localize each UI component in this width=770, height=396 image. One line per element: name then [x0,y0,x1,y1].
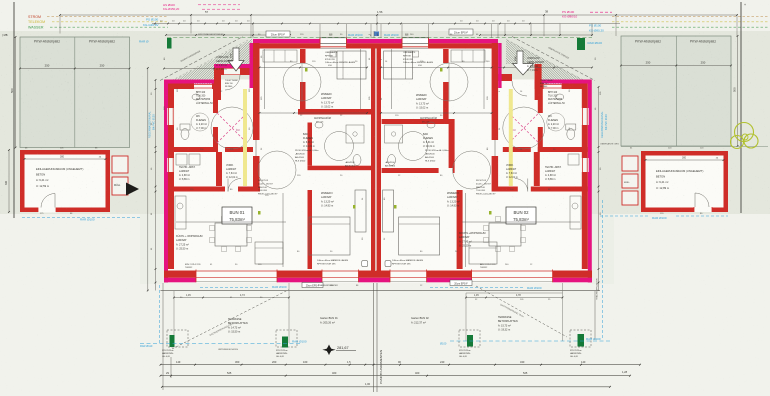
wall: WC left vertical right wing [538,89,543,113]
BUN02 bed zimmer1 [384,51,413,79]
parking left dimension line [20,68,130,70]
WC fixtures left [181,129,189,140]
WC door arc left [191,113,209,131]
vorplatz left dashed boundary [160,37,243,81]
BUN02 label box [506,207,536,224]
side band right of building [592,214,614,284]
mid band slightly darker scanned area [0,31,770,214]
bottom dim row 3 [162,386,610,388]
terrace left dashed diagonal (eaves) [172,290,289,350]
storage right inner dimension [646,159,724,161]
window in right exterior wall TECHN [581,158,589,172]
sink fixtures at party wall bottom [362,261,368,267]
wall: BUN02 zimmer2 right vertical [457,190,463,269]
hall closet row BUN02 [451,50,485,62]
elevation star marker [323,345,335,355]
storage right door opening [694,205,712,213]
drain line below storage right [600,215,648,217]
left entry door swing [225,75,240,90]
drain label below bottom wall right [430,287,524,289]
wall: top exterior insulation (pink) [253,39,498,43]
parking area right (PKW-Abstellplatz) [621,36,731,146]
extension lines above top wall [252,24,254,38]
terrace right dashed diagonal (eaves) [476,286,567,337]
green downpipe terrace right b [578,334,585,347]
shower circle left wing [211,107,253,149]
wall: BUN01 bad left vertical [308,123,313,166]
green downpipe terrace left b [282,337,288,348]
parking right divider [675,36,677,146]
storage left inner dimension [25,158,106,160]
left wing window in top wall [194,84,212,86]
windows in top wall [320,38,347,49]
extension lines from top dim row [190,15,192,34]
BUN02 bad door swing circle [399,132,428,161]
interior dim line living rooms [176,221,286,223]
shower circle right wing [503,107,545,149]
wall: right wing bottom (above kitchen) [531,187,588,192]
wall: left entry upper insulation (pink) [214,64,253,68]
drain line below storage left [22,217,140,219]
window in left exterior wall TECHN [167,158,175,172]
green downpipe terrace right a [467,335,473,347]
left outer vertical dim chain [155,80,157,291]
terrace right dim line [466,297,563,299]
wall: BUN01 zimmer2 left vertical [308,190,313,269]
wall: BUN01 zimmer1 bottom horizontal [298,109,371,115]
left entry door opening [224,68,240,75]
BUN02 kitchen counter [570,196,581,229]
green downpipe terrace left a [170,335,175,347]
interior vertical dim BUN02 [391,49,393,109]
wall: BUN01 zimmer1/hall vertical [300,49,306,63]
wall: left exterior (red) [168,89,174,269]
paper speckle overlay parking left [20,34,130,148]
interior dimension line zimmer1 BUN02 [381,67,492,69]
dim row above building y33.5 [166,34,290,36]
wall: left entry upper (red) [221,68,253,75]
BUN01 zimmer1 door swing circle [283,63,321,101]
washing machine boxes [176,154,187,165]
green dashed drain line above top wall [167,36,592,38]
terrace left drain dashed cyan [140,343,300,345]
BUN02 bed zimmer2 [399,217,440,255]
green marks BUN02 [440,68,443,72]
wall: below WC right wing [538,147,588,152]
eps box bottom right [450,280,472,286]
window in right exterior wall WC [581,108,589,125]
parking right dimension line [621,65,731,67]
storage room left walls (EINLAGERUNGSRAUM) [20,150,110,212]
bin boxes right of building [622,156,638,171]
BUN02 bad fixtures [427,122,435,128]
punktfundamenten vertical lines [373,283,375,392]
BUN02 zimmer2 door swing circle [453,151,491,189]
dimension line through left porch [164,68,214,70]
wall: BUN02 bad bottom horizontal [382,168,455,173]
right outer vertical dim chain [598,87,600,291]
entrance arrow right (EINF) [513,51,534,75]
WC fixtures right [567,129,575,140]
side band left of building [140,214,164,284]
BUN01 label box [222,207,252,224]
entry door arc to kitchen left [228,179,241,192]
wall: center-left vertical (red) [253,43,260,140]
right entry door swing [512,81,527,96]
green downpipe top-right [577,38,585,50]
wall: BUN02 zimmer1 bottom horizontal [382,119,455,124]
wall: right exterior (red) [582,89,588,269]
wall: left exterior insulation (pink) [164,84,168,283]
bottom dim row 2 [161,375,631,377]
shower cross dashed pink right [509,113,539,143]
wall: right wing top (red) [562,84,588,90]
bottom dim row 1 [161,364,641,366]
BUN01 couch [255,242,283,264]
vorplatz right hatched area [409,35,673,95]
parking right vertical dimension [737,36,739,146]
wall: right entry column (red) [535,64,542,100]
BUN02 couch [469,242,497,264]
boundary vertical line right [740,2,742,213]
door opening center-right wall [494,140,496,156]
dim row above building right [480,34,592,36]
terrace right dashed corner boxes [459,330,480,347]
wall: below WC left wing [168,147,218,152]
arrow marker left [126,183,139,196]
BUN01 zimmer2 door swing circle [258,151,296,189]
wall: left wing top stub (red) [212,84,221,90]
wall: TECHN/VORR divider left wing [216,152,222,186]
BUN01 bad door swing circle [325,132,354,161]
wall: WC right vertical left wing [213,89,218,113]
storage left door opening [38,205,56,213]
terrace left dashed corner boxes [167,330,188,347]
terrace right outline [466,293,563,341]
BUN01 bed zimmer2 [309,217,350,255]
terrace left outline [174,291,289,343]
BUN01 wardrobe zimmer2 [355,190,366,232]
parking right bottom line [621,146,768,148]
terrace right drain dashed cyan [450,340,610,342]
door opening center-left wall [255,140,257,156]
entry door arc to kitchen right [515,179,528,192]
left drain dashed vertical [159,285,161,344]
wall: VORR/TECHN divider right wing [534,152,540,186]
eps label box left [266,31,290,37]
wall: left wing top insulation (pink) [164,80,215,84]
wall: right wing top stub (red) [535,84,544,90]
vorplatz right dashed boundary [512,37,595,81]
WC door arc right [547,113,565,131]
building interior fill [164,43,592,283]
right wing window in top wall [544,84,562,86]
BUN01 dining table [215,223,247,246]
top dimension row 1 [60,14,737,16]
wall: top exterior (red) [253,43,498,48]
eps label box right [449,29,473,35]
window in left exterior wall WC [167,108,175,125]
wall: left wing top (red) [168,84,194,90]
storage right door swing [695,193,709,207]
storage left door swing [41,194,55,208]
green downpipe top-left [167,38,172,49]
paper speckle overlay parking right [621,36,731,146]
interior dimension line mid BUN02 [381,112,492,114]
wall: BUN01 bad bottom horizontal [308,166,372,171]
wall: left wing bottom (above kitchen) [168,187,225,192]
BUN02 wardrobe zimmer2 [383,190,394,232]
parking left divider [74,37,76,148]
drain label below bottom wall left [200,287,268,289]
green marks BUN01 [305,68,308,72]
wall: center-right vertical (red) [492,43,499,140]
BUN02 bad door opening [439,168,453,173]
BUN02 dining table [489,223,521,246]
paper speckle overlay band [0,31,770,214]
storage left vertical dim [8,150,10,212]
central vertical dim marks at top wall [373,31,375,38]
interior dimension line mid BUN01 [260,112,368,114]
wall: right exterior insulation (pink) [588,84,592,283]
insulation strip yellow left [243,89,247,186]
interior vertical dim BUN01 [360,49,362,109]
left outer vertical dim chain 2 [147,68,149,291]
utility lines right side [612,15,768,17]
right chain down to drain [594,291,596,341]
eps box bottom left [302,283,323,288]
boundary vertical line left [13,2,15,218]
BUN01 bed zimmer1 [337,51,366,79]
wall: bottom exterior (red) segments [164,271,196,278]
dimension line through right porch [498,67,592,69]
vorplatz left hatched area [74,35,338,95]
wall: right entry piece (red) [495,74,512,81]
bin boxes left of building [112,156,128,173]
wall: BUN02 bad right vertical [449,124,455,168]
storage room right walls (EINLAGERUNGSRAUM) [641,151,728,212]
BUN02 zimmer1 door swing circle [430,63,468,101]
wall: BUN02 zimmer1/hall vertical [443,49,449,63]
shower cross dashed pink [217,113,247,143]
garden boundary line [161,290,601,292]
top dimension row 2 [152,23,620,25]
wall: central party wall (double red) [371,49,375,272]
parking left vertical dimension [15,37,17,148]
parking area left (PKW-Abstellplatz) [20,37,130,148]
insulation strip yellow right [509,89,513,186]
bottom left connector verticals [162,283,164,390]
washing machine boxes right [568,154,579,165]
wall: left entry column (red) [214,64,221,100]
terrace left dim line [174,297,289,299]
windows in bottom wall [196,270,277,283]
BUN01 bad fixtures [315,122,323,128]
tree symbol right [735,123,754,142]
hall closet row BUN01 [263,50,297,62]
entrance arrow left (EINF) [228,48,244,71]
interior dimension line zimmer1 BUN01 [260,67,368,69]
BUN01 kitchen counter [175,196,186,229]
wall: right wing top insulation (pink) [535,80,592,84]
